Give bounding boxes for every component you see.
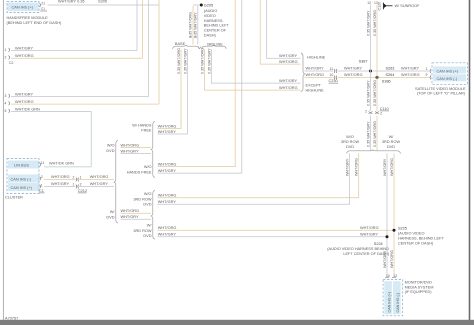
svg-text:WHT/ORG: WHT/ORG bbox=[51, 175, 70, 179]
brace junction under G205 risers bbox=[198, 47, 201, 49]
svg-text:WHT/ORG: WHT/ORG bbox=[90, 175, 109, 179]
svg-text:2: 2 bbox=[380, 112, 382, 116]
svg-text:WHT/GRY: WHT/GRY bbox=[158, 200, 177, 204]
svg-text:5: 5 bbox=[5, 109, 7, 113]
wire riser G205 WHT/ORG bbox=[192, 6, 194, 45]
svg-text:S263: S263 bbox=[386, 66, 395, 70]
svg-text:12: 12 bbox=[367, 1, 371, 5]
svg-text:HIGHLINE: HIGHLINE bbox=[307, 55, 326, 59]
label G205 location bbox=[204, 9, 230, 38]
svg-text:1: 1 bbox=[5, 48, 7, 52]
connector label C110 bbox=[380, 107, 389, 111]
svg-text:WHT/ORG: WHT/ORG bbox=[158, 226, 177, 230]
svg-text:C1: C1 bbox=[41, 7, 45, 11]
wire monitor WHT/GRY riser bbox=[386, 153, 388, 277]
svg-text:BEHIND LEFT: BEHIND LEFT bbox=[204, 24, 230, 28]
svg-text:(TOP OF LEFT "D" PILLAR): (TOP OF LEFT "D" PILLAR) bbox=[417, 92, 466, 96]
svg-text:12: 12 bbox=[394, 274, 398, 278]
wire riser HIGHLINE WHT/GRY bbox=[267, 0, 301, 58]
svg-text:(BEHIND LEFT END OF DASH): (BEHIND LEFT END OF DASH) bbox=[7, 21, 63, 25]
svg-text:1: 1 bbox=[41, 183, 43, 187]
svg-text:WHT/GRY: WHT/GRY bbox=[401, 67, 420, 71]
svg-text:0.35 WHT/ORG: 0.35 WHT/ORG bbox=[201, 48, 205, 74]
svg-text:DVD: DVD bbox=[106, 149, 114, 153]
svg-text:CLUSTER: CLUSTER bbox=[5, 195, 23, 199]
svg-text:WHT/ORG: WHT/ORG bbox=[401, 73, 420, 77]
svg-text:CAN IHS (+): CAN IHS (+) bbox=[437, 69, 459, 73]
svg-text:WHT/GRY: WHT/GRY bbox=[279, 54, 298, 58]
svg-text:CAN IHS (+): CAN IHS (+) bbox=[388, 292, 392, 313]
svg-text:DVD: DVD bbox=[143, 234, 151, 238]
pin 2 cluster CAN IHS (-) bbox=[40, 177, 41, 181]
svg-text:S387: S387 bbox=[359, 60, 368, 64]
svg-text:WHT/GRY: WHT/GRY bbox=[15, 46, 34, 50]
svg-text:0.35 WHT/ORG: 0.35 WHT/ORG bbox=[373, 121, 377, 147]
svg-text:11: 11 bbox=[330, 67, 334, 71]
svg-text:S264: S264 bbox=[386, 73, 395, 77]
svg-text:CAN IHS (+): CAN IHS (+) bbox=[11, 186, 33, 190]
svg-text:DVD: DVD bbox=[106, 215, 114, 219]
svg-text:WHT/GRY: WHT/GRY bbox=[306, 67, 325, 71]
splice S386 dot bbox=[376, 76, 379, 79]
wire BASE WHT/ORG riser bbox=[158, 50, 182, 129]
svg-text:0.35 WHT/GRY: 0.35 WHT/GRY bbox=[366, 10, 370, 36]
svg-text:MEDIA SYSTEM: MEDIA SYSTEM bbox=[405, 285, 434, 289]
splice G205 bbox=[200, 4, 203, 7]
brace hands-free fan (W/O DVD feed) bbox=[151, 121, 155, 177]
svg-text:S205: S205 bbox=[98, 0, 107, 4]
svg-text:S386: S386 bbox=[382, 79, 391, 83]
pin brackets monitor bbox=[385, 276, 389, 279]
svg-text:WHT/ORG: WHT/ORG bbox=[279, 86, 298, 90]
svg-text:WHT/DK GRN: WHT/DK GRN bbox=[15, 107, 40, 111]
connector label C230 bbox=[329, 79, 339, 83]
svg-text:DVD: DVD bbox=[143, 203, 151, 207]
svg-text:WHT/GRY: WHT/GRY bbox=[158, 169, 177, 173]
svg-text:C110: C110 bbox=[380, 107, 389, 111]
svg-text:0.35 WHT/ORG: 0.35 WHT/ORG bbox=[373, 10, 377, 36]
wire riser G205 WHT/GRY bbox=[197, 6, 199, 45]
label S225 location bbox=[398, 232, 444, 246]
brace 3rd-row fan bbox=[347, 150, 401, 154]
svg-text:WHT/ORG: WHT/ORG bbox=[15, 54, 34, 58]
svg-text:WHT/DK GRN: WHT/DK GRN bbox=[49, 162, 74, 166]
wire monitor WHT/ORG riser bbox=[393, 153, 395, 277]
svg-text:WHT/ORG: WHT/ORG bbox=[158, 124, 177, 128]
svg-text:10: 10 bbox=[386, 274, 390, 278]
svg-text:DASH): DASH) bbox=[204, 34, 217, 38]
svg-text:DVD: DVD bbox=[387, 145, 395, 149]
svg-text:G205: G205 bbox=[204, 3, 213, 7]
svg-text:0.35 WHT/ORG: 0.35 WHT/ORG bbox=[373, 80, 377, 106]
svg-text:C120: C120 bbox=[378, 2, 382, 11]
inline connector C212 row1 bbox=[76, 178, 79, 182]
module Satellite Video Module box bbox=[432, 63, 468, 85]
svg-text:LEFT CENTER OF DASH): LEFT CENTER OF DASH) bbox=[343, 252, 389, 256]
svg-text:5: 5 bbox=[195, 35, 197, 39]
label S224 location bbox=[327, 247, 389, 256]
svg-text:WHT/GRY: WHT/GRY bbox=[158, 232, 177, 236]
page bottom bar bbox=[0, 320, 474, 325]
svg-text:0.35 WHT/GRY: 0.35 WHT/GRY bbox=[194, 12, 198, 38]
svg-text:C212: C212 bbox=[78, 189, 87, 193]
svg-text:WHT/GRY: WHT/GRY bbox=[90, 182, 109, 186]
module U1 Hands-Free Module box bbox=[7, 2, 39, 13]
svg-text:WHT/ORG: WHT/ORG bbox=[360, 226, 379, 230]
pin 21 Hands-Free bbox=[40, 2, 47, 11]
svg-text:CAN IHS (-): CAN IHS (-) bbox=[437, 77, 458, 81]
svg-text:W/ SUNROOF: W/ SUNROOF bbox=[395, 4, 421, 8]
svg-text:C2: C2 bbox=[9, 61, 13, 65]
svg-text:CAN IHS (-): CAN IHS (-) bbox=[11, 177, 32, 181]
wire riser V4 WHT/ORG bbox=[158, 0, 160, 104]
svg-text:C230: C230 bbox=[329, 79, 338, 83]
svg-text:WHT/ORG: WHT/ORG bbox=[158, 193, 177, 197]
svg-text:WHT/ORG: WHT/ORG bbox=[121, 209, 140, 213]
svg-text:WHT/ORG: WHT/ORG bbox=[344, 73, 363, 77]
splice S224 dot bbox=[386, 235, 389, 238]
svg-text:2: 2 bbox=[80, 183, 82, 187]
svg-text:HANDSFREE MODULE: HANDSFREE MODULE bbox=[7, 16, 49, 20]
splice S225 dot bbox=[393, 229, 396, 232]
pin 11 cluster LIN BUS bbox=[40, 163, 41, 167]
svg-text:HARNESS, BEHIND LEFT: HARNESS, BEHIND LEFT bbox=[398, 237, 444, 241]
inline connector C230 row2 bbox=[334, 76, 337, 80]
svg-text:2: 2 bbox=[365, 110, 367, 114]
svg-text:WHT/ORG: WHT/ORG bbox=[390, 158, 394, 176]
svg-text:WHT/GRY: WHT/GRY bbox=[345, 158, 349, 176]
inline connector C230 row1 bbox=[334, 69, 337, 73]
svg-text:0.35 WHT/GRY: 0.35 WHT/GRY bbox=[207, 48, 211, 74]
connector label cluster C1 bbox=[39, 189, 45, 193]
page left border bbox=[2, 0, 4, 321]
arrow W/ SUNROOF bbox=[378, 2, 421, 11]
module Monitor/DVD Media System box bbox=[383, 280, 403, 316]
svg-text:9: 9 bbox=[190, 35, 192, 39]
wire MIDLINE WHT/GRY riser bbox=[211, 50, 300, 84]
svg-text:0.35 WHT/ORG: 0.35 WHT/ORG bbox=[189, 12, 193, 38]
page right border bbox=[469, 0, 471, 321]
svg-text:3: 3 bbox=[5, 94, 7, 98]
svg-text:3RD ROW: 3RD ROW bbox=[133, 197, 152, 201]
svg-text:(AUDIO VIDEO: (AUDIO VIDEO bbox=[398, 232, 424, 236]
svg-text:W/O: W/O bbox=[107, 144, 115, 148]
svg-text:LIN BUS: LIN BUS bbox=[14, 163, 29, 167]
svg-text:FREE: FREE bbox=[141, 129, 152, 133]
svg-text:WHT/ORG: WHT/ORG bbox=[15, 100, 34, 104]
svg-text:HANDS FREE: HANDS FREE bbox=[127, 170, 152, 174]
svg-text:DVD: DVD bbox=[346, 145, 354, 149]
svg-text:S225: S225 bbox=[398, 227, 407, 231]
svg-text:EXCEPT: EXCEPT bbox=[306, 84, 322, 88]
svg-text:SATELLITE VIDEO MODULE: SATELLITE VIDEO MODULE bbox=[415, 87, 466, 91]
svg-text:0.35 WHT/GRY: 0.35 WHT/GRY bbox=[183, 48, 187, 74]
svg-text:(AUDIO: (AUDIO bbox=[204, 9, 217, 13]
svg-text:WHT/ORG: WHT/ORG bbox=[279, 60, 298, 64]
wire riser V1 WHT/GRY bbox=[136, 0, 138, 51]
svg-text:WHT/GRY: WHT/GRY bbox=[15, 92, 34, 96]
svg-text:1: 1 bbox=[73, 183, 75, 187]
svg-text:0.35 WHT/GRY: 0.35 WHT/GRY bbox=[366, 80, 370, 106]
svg-text:HIGHLINE: HIGHLINE bbox=[306, 88, 325, 92]
svg-text:WHT/GRY: WHT/GRY bbox=[121, 149, 140, 153]
svg-text:W/ HANDS: W/ HANDS bbox=[132, 123, 152, 127]
svg-text:WHT/GRY 0.35: WHT/GRY 0.35 bbox=[58, 0, 85, 4]
svg-text:W/O: W/O bbox=[144, 192, 152, 196]
wire riser V3 WHT/GRY bbox=[148, 0, 150, 97]
svg-text:0.35 WHT/GRY: 0.35 WHT/GRY bbox=[366, 121, 370, 147]
svg-text:C1: C1 bbox=[39, 189, 44, 193]
svg-text:2: 2 bbox=[5, 56, 7, 60]
svg-text:3RD ROW: 3RD ROW bbox=[133, 229, 152, 233]
svg-text:S224: S224 bbox=[374, 242, 383, 246]
wire riser V2 WHT/ORG bbox=[142, 0, 144, 58]
svg-text:3RD ROW: 3RD ROW bbox=[341, 140, 360, 144]
svg-text:CAN IHS (-): CAN IHS (-) bbox=[396, 293, 400, 313]
svg-text:A70757: A70757 bbox=[5, 317, 18, 321]
svg-text:W/O: W/O bbox=[144, 165, 152, 169]
brace merge highline/except bbox=[301, 53, 305, 92]
svg-text:WHT/GRY: WHT/GRY bbox=[51, 182, 70, 186]
brace BASE bbox=[173, 45, 200, 49]
svg-text:11: 11 bbox=[41, 161, 45, 165]
brace big fan from cluster bbox=[114, 140, 118, 223]
pin brackets satellite bbox=[430, 69, 431, 73]
svg-text:2: 2 bbox=[73, 176, 75, 180]
inline connector C212 row2 bbox=[76, 185, 79, 189]
svg-text:(IF EQUIPPED): (IF EQUIPPED) bbox=[405, 290, 433, 294]
svg-text:CENTER OF DASH): CENTER OF DASH) bbox=[398, 241, 434, 245]
wire riser sunroof WHT/GRY (vertical through S387) bbox=[370, 5, 372, 112]
wire MIDLINE WHT/ORG riser bbox=[205, 50, 301, 91]
svg-text:W/O: W/O bbox=[346, 135, 354, 139]
svg-text:(AUDIO VIDEO HARNESS BEHIND: (AUDIO VIDEO HARNESS BEHIND bbox=[327, 247, 389, 251]
wire stub to splice G205 bbox=[193, 4, 201, 6]
inline connector C110 row2 bbox=[375, 112, 379, 114]
svg-text:WHT/GRY: WHT/GRY bbox=[279, 79, 298, 83]
svg-text:21: 21 bbox=[41, 2, 45, 6]
svg-text:4: 4 bbox=[5, 102, 7, 106]
wire WHT/GRY from Hands-Free pin 21 bbox=[48, 4, 160, 6]
svg-text:CAN IHS (+): CAN IHS (+) bbox=[12, 6, 34, 10]
svg-text:WHT/GRY: WHT/GRY bbox=[383, 158, 387, 176]
brace MIDLINE bbox=[202, 45, 227, 49]
svg-text:WHT/ORG: WHT/ORG bbox=[121, 143, 140, 147]
svg-text:VIDEO: VIDEO bbox=[204, 14, 216, 18]
svg-text:1: 1 bbox=[426, 67, 428, 71]
inline connector C110 row1 bbox=[369, 112, 373, 114]
svg-text:1: 1 bbox=[80, 176, 82, 180]
svg-text:2: 2 bbox=[41, 175, 43, 179]
svg-text:WHT/GRY: WHT/GRY bbox=[360, 232, 379, 236]
brace 3rd-row fan (W/ DVD feed) bbox=[151, 190, 155, 239]
svg-text:WHT/GRY: WHT/GRY bbox=[158, 130, 177, 134]
wire riser HIGHLINE WHT/ORG bbox=[260, 0, 300, 64]
svg-text:WHT/ORG: WHT/ORG bbox=[158, 162, 177, 166]
wire BASE WHT/GRY riser bbox=[158, 50, 188, 135]
wire riser sunroof WHT/ORG bbox=[376, 5, 378, 112]
module Cluster box bbox=[7, 159, 39, 194]
pin 1 cluster CAN IHS (+) bbox=[40, 185, 41, 189]
svg-text:WHT/ORG: WHT/ORG bbox=[355, 158, 359, 176]
svg-text:10: 10 bbox=[330, 73, 334, 77]
svg-text:BASE: BASE bbox=[175, 42, 186, 46]
svg-text:WHT/ORG: WHT/ORG bbox=[306, 73, 325, 77]
svg-text:MONITOR/DVD: MONITOR/DVD bbox=[405, 281, 432, 285]
svg-text:WHT/GRY: WHT/GRY bbox=[344, 67, 363, 71]
svg-text:WHT/GRY: WHT/GRY bbox=[121, 215, 140, 219]
svg-text:WHT/ORG: WHT/ORG bbox=[390, 250, 394, 268]
svg-text:HARNESS,: HARNESS, bbox=[204, 19, 224, 23]
svg-text:0.35 WHT/ORG: 0.35 WHT/ORG bbox=[177, 48, 181, 74]
svg-text:9: 9 bbox=[426, 73, 428, 77]
connector label C212 bbox=[78, 189, 87, 193]
svg-text:3RD ROW: 3RD ROW bbox=[382, 140, 401, 144]
svg-text:CENTER OF: CENTER OF bbox=[204, 29, 227, 33]
splice S387 dot bbox=[369, 70, 372, 73]
